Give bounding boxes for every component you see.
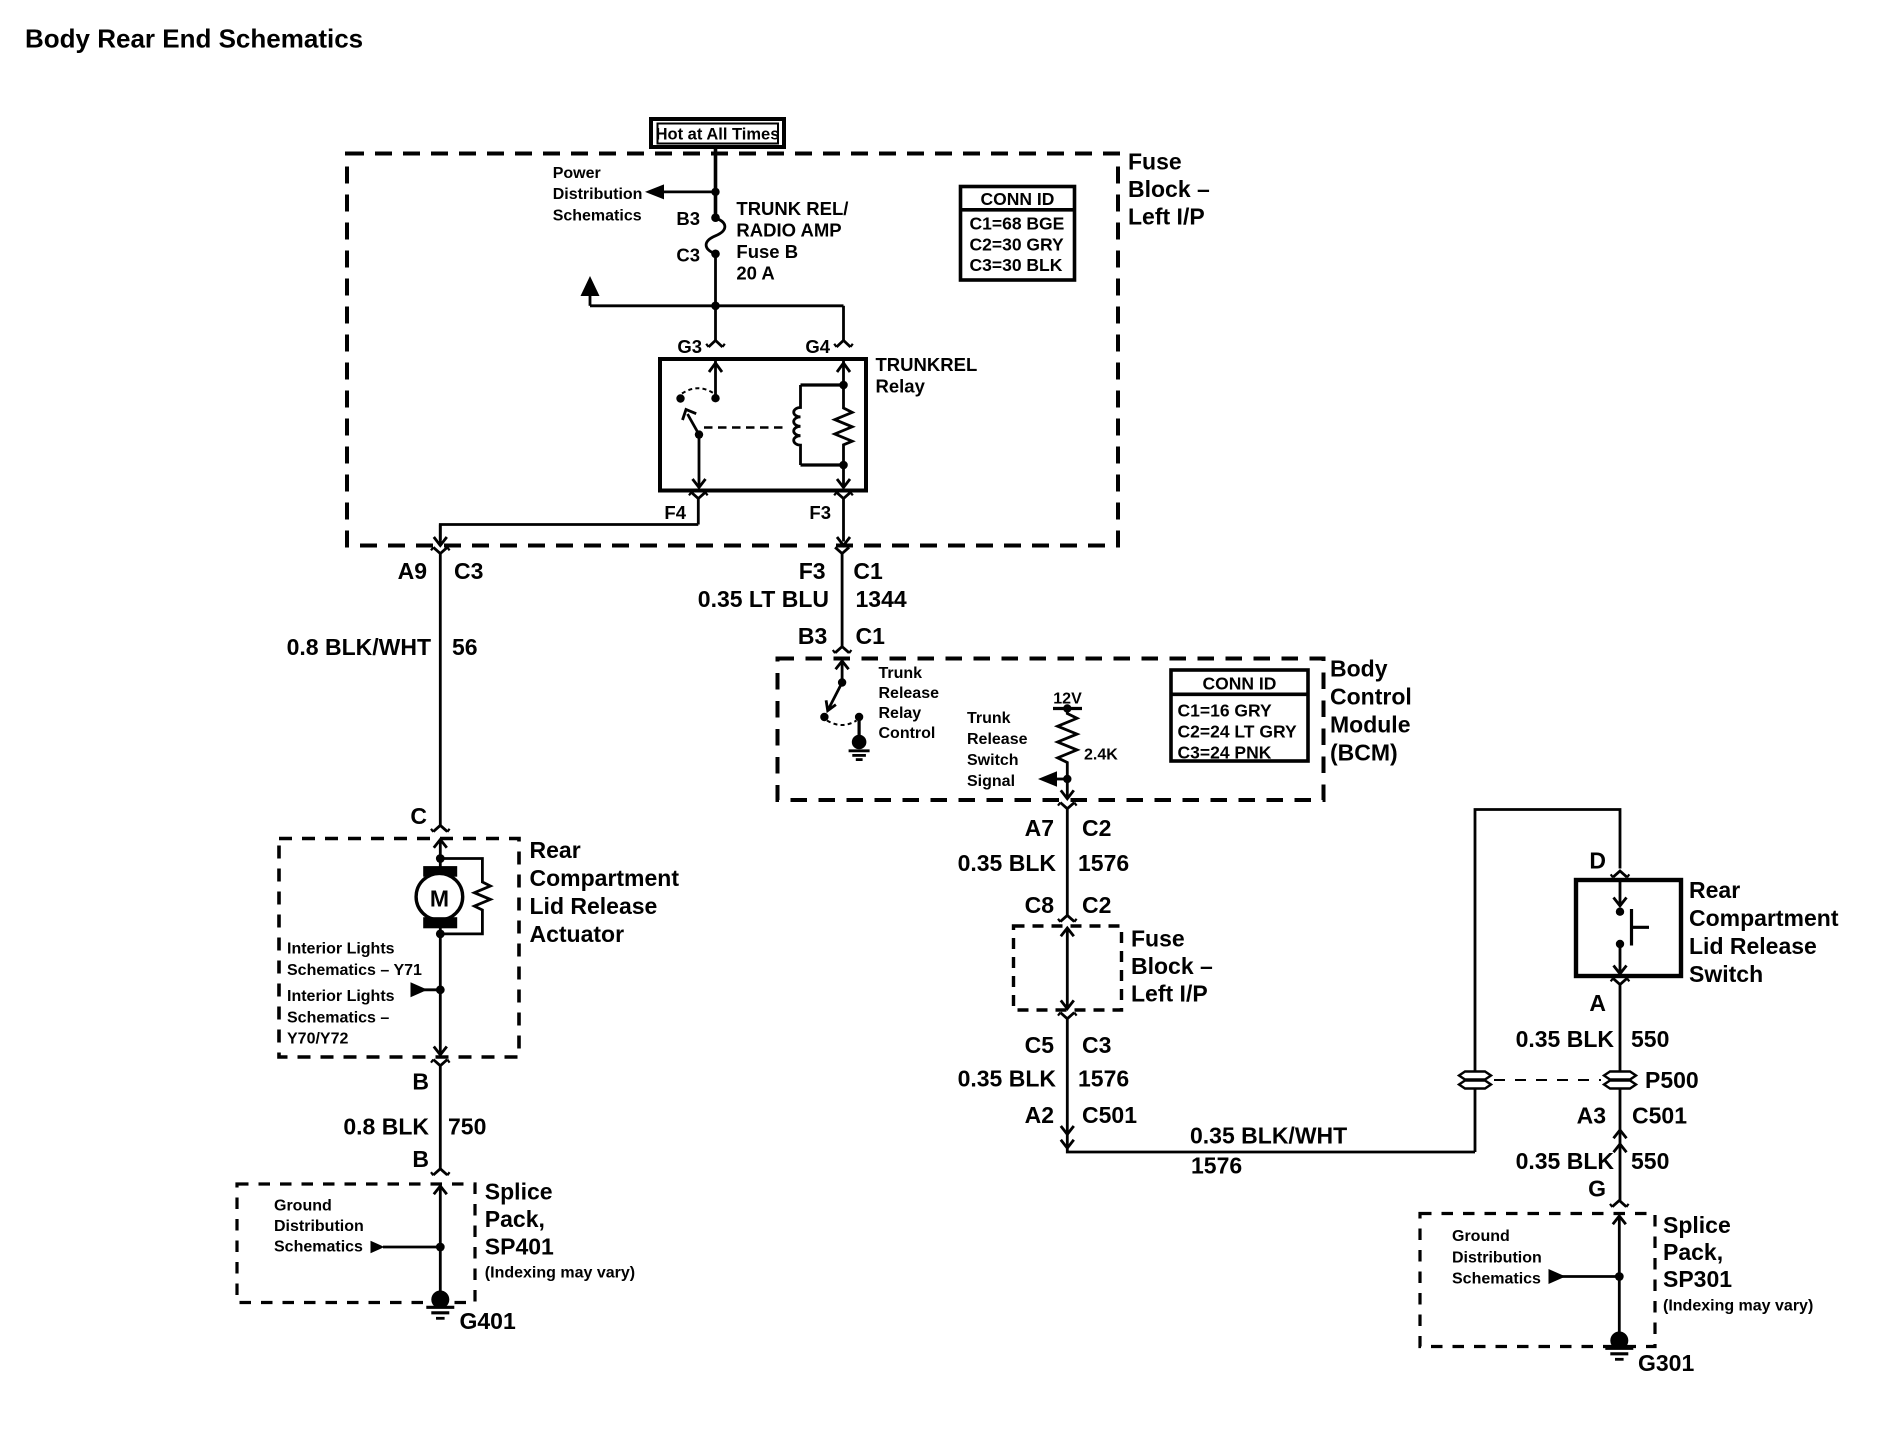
- svg-text:Distribution: Distribution: [1452, 1249, 1542, 1266]
- svg-text:Schematics –: Schematics –: [287, 1009, 389, 1026]
- svg-text:Distribution: Distribution: [553, 186, 643, 203]
- svg-text:Compartment: Compartment: [530, 865, 680, 891]
- arrow into actuator at C: [434, 840, 447, 859]
- svg-text:TRUNK REL/: TRUNK REL/: [736, 198, 848, 219]
- arrow from ground distribution schematics (SP301): [1562, 1275, 1619, 1278]
- svg-text:Rear: Rear: [1689, 877, 1740, 903]
- relay switch pivot contact: [676, 394, 684, 402]
- svg-text:A9: A9: [398, 558, 427, 584]
- svg-text:Release: Release: [967, 731, 1028, 748]
- arrow out of BCM at A7: [1061, 790, 1074, 798]
- svg-text:Trunk: Trunk: [879, 665, 923, 682]
- svg-text:C2=24 LT GRY: C2=24 LT GRY: [1178, 722, 1297, 742]
- svg-text:SP301: SP301: [1663, 1266, 1732, 1292]
- svg-text:G301: G301: [1638, 1350, 1694, 1376]
- connector chevron at BCM B3: [835, 647, 849, 653]
- svg-text:F3: F3: [809, 502, 831, 523]
- svg-text:Signal: Signal: [967, 773, 1015, 790]
- wire down to relay G3: [714, 306, 717, 341]
- svg-text:C5: C5: [1025, 1032, 1055, 1058]
- svg-text:0.35 BLK: 0.35 BLK: [1516, 1026, 1615, 1052]
- svg-text:750: 750: [448, 1114, 486, 1140]
- connector arm ticks: [431, 344, 1629, 1207]
- svg-text:Splice: Splice: [1663, 1212, 1731, 1238]
- dashed link between P500 halves: [1494, 1079, 1601, 1081]
- relay TRUNKREL box: [660, 359, 866, 491]
- relay coil control dashed link: [704, 426, 787, 428]
- svg-text:C8: C8: [1025, 892, 1055, 918]
- connector Y below small fuse block (C5/C3): [1060, 1013, 1475, 1153]
- Hot at All Times flag: [651, 119, 784, 147]
- svg-text:C3=30 BLK: C3=30 BLK: [970, 255, 1063, 275]
- svg-text:Left I/P: Left I/P: [1131, 981, 1208, 1007]
- svg-text:TRUNKREL: TRUNKREL: [876, 354, 978, 375]
- wire: horizontal bus to G3/G4: [590, 304, 844, 307]
- in-line connector chevrons at A2/C501: [1061, 1126, 1074, 1148]
- connector Y below fuse block (A9/C3): [433, 547, 447, 553]
- node: motor bottom junction: [436, 930, 445, 939]
- svg-text:Actuator: Actuator: [530, 921, 625, 947]
- svg-text:Body Rear End Schematics: Body Rear End Schematics: [25, 24, 363, 54]
- svg-text:A3: A3: [1577, 1103, 1606, 1129]
- svg-text:0.35 BLK: 0.35 BLK: [958, 850, 1057, 876]
- svg-text:D: D: [1589, 848, 1606, 874]
- relay switch alternate-position dashed arc: [682, 388, 714, 393]
- wire stub with up arrow (to other circuits): [589, 294, 592, 306]
- connector chevron at actuator C: [433, 825, 447, 831]
- svg-text:C3=24 PNK: C3=24 PNK: [1178, 742, 1272, 762]
- BCM relay driver switch (trunk release relay control): [838, 678, 846, 686]
- svg-text:C3: C3: [454, 558, 483, 584]
- connector Y below fuse block (F3/C1): [835, 547, 849, 553]
- svg-text:CONN ID: CONN ID: [1203, 674, 1277, 694]
- svg-text:C2: C2: [1082, 892, 1111, 918]
- svg-text:Lid Release: Lid Release: [530, 893, 658, 919]
- svg-text:Y70/Y72: Y70/Y72: [287, 1031, 348, 1048]
- Fuse Block - Left I/P small dashed box: [1014, 926, 1122, 1010]
- svg-text:Fuse B: Fuse B: [736, 241, 798, 262]
- svg-text:Block –: Block –: [1131, 953, 1213, 979]
- wire: F3/C1 to BCM B3/C1: [841, 554, 844, 647]
- in-line connector P500 (switch side): [1604, 1072, 1636, 1089]
- svg-text:Relay: Relay: [879, 705, 922, 722]
- svg-text:C1: C1: [856, 623, 886, 649]
- svg-text:Ground: Ground: [274, 1198, 332, 1215]
- svg-text:B3: B3: [676, 208, 700, 229]
- relay switch common pin wire (from G3): [714, 361, 717, 398]
- fuse TRUNK REL/RADIO AMP Fuse B 20A: [706, 213, 725, 258]
- node: switch signal junction: [1063, 775, 1071, 783]
- node: fuse output junction: [711, 302, 720, 311]
- svg-text:1344: 1344: [856, 586, 907, 612]
- svg-text:20 A: 20 A: [736, 263, 774, 284]
- connector chevron at SP401: [433, 1169, 447, 1175]
- svg-text:0.8 BLK: 0.8 BLK: [343, 1114, 429, 1140]
- svg-text:Module: Module: [1330, 712, 1411, 738]
- arrow out of actuator at B: [434, 1047, 447, 1055]
- connector chevron G4: [837, 340, 851, 347]
- svg-text:550: 550: [1631, 1026, 1669, 1052]
- svg-text:Body: Body: [1330, 656, 1388, 682]
- svg-text:0.35 BLK: 0.35 BLK: [958, 1066, 1057, 1092]
- svg-text:Relay: Relay: [876, 376, 926, 397]
- svg-text:(Indexing may vary): (Indexing may vary): [1663, 1298, 1813, 1315]
- svg-text:C2=30 GRY: C2=30 GRY: [970, 234, 1065, 254]
- node: interior lights tap: [436, 985, 445, 994]
- wire down to relay G4: [842, 306, 845, 341]
- svg-text:Splice: Splice: [485, 1179, 553, 1205]
- svg-text:C: C: [410, 803, 427, 829]
- svg-text:G4: G4: [805, 336, 830, 357]
- node: motor top junction: [436, 854, 445, 863]
- svg-text:Power: Power: [553, 165, 601, 182]
- svg-text:Rear: Rear: [530, 837, 581, 863]
- connector chevron G3: [709, 340, 723, 347]
- connector Y below F3: [837, 492, 851, 541]
- svg-text:Hot at All Times: Hot at All Times: [656, 126, 780, 144]
- svg-text:C3: C3: [1082, 1032, 1111, 1058]
- svg-text:Schematics – Y71: Schematics – Y71: [287, 962, 422, 979]
- Rear Compartment Lid Release Actuator dashed box: [279, 839, 519, 1058]
- svg-text:A7: A7: [1025, 815, 1054, 841]
- arrow to interior lights schematics: [424, 988, 440, 991]
- arrow into SP401: [434, 1186, 447, 1300]
- junction to power distribution: [711, 188, 719, 196]
- Ground Distribution dashed box (SP301): [1420, 1214, 1655, 1347]
- wire: motor to actuator pin B: [439, 934, 442, 1054]
- arrow into SP301: [1613, 1216, 1626, 1341]
- svg-text:0.35 BLK: 0.35 BLK: [1516, 1148, 1615, 1174]
- in-line connector chevrons at A3/C501: [1614, 1130, 1627, 1152]
- arrow at fuse block exit (A9): [434, 525, 447, 546]
- svg-text:Ground: Ground: [1452, 1228, 1510, 1245]
- svg-text:Schematics: Schematics: [274, 1239, 363, 1256]
- svg-text:Schematics: Schematics: [553, 207, 642, 224]
- svg-text:0.8 BLK/WHT: 0.8 BLK/WHT: [287, 634, 431, 660]
- svg-text:F4: F4: [664, 502, 686, 523]
- svg-text:Pack,: Pack,: [485, 1206, 545, 1232]
- svg-text:Left I/P: Left I/P: [1128, 204, 1205, 230]
- svg-text:(Indexing may vary): (Indexing may vary): [485, 1265, 635, 1282]
- svg-text:Switch: Switch: [1689, 961, 1763, 987]
- wire to power distribution arrow: [660, 190, 716, 193]
- wire: switch output to A: [1614, 944, 1627, 974]
- svg-text:B: B: [412, 1146, 429, 1172]
- svg-text:Interior Lights: Interior Lights: [287, 988, 395, 1005]
- svg-text:Switch: Switch: [967, 752, 1019, 769]
- arrow at fuse block exit (F3): [837, 537, 850, 546]
- motor M (actuator): [416, 859, 463, 935]
- wire: fuse output down: [714, 254, 717, 306]
- Fuse Block - Left I/P dashed box: [347, 154, 1118, 546]
- svg-text:B3: B3: [798, 623, 827, 649]
- node: ground distribution tap: [436, 1243, 445, 1252]
- svg-text:2.4K: 2.4K: [1084, 747, 1118, 764]
- svg-text:F3: F3: [799, 558, 826, 584]
- svg-text:C1: C1: [853, 558, 883, 584]
- svg-text:RADIO AMP: RADIO AMP: [736, 220, 841, 241]
- svg-text:Trunk: Trunk: [967, 710, 1011, 727]
- svg-text:G401: G401: [460, 1308, 516, 1334]
- svg-text:Fuse: Fuse: [1131, 926, 1185, 952]
- push button actuator symbol: [1630, 909, 1633, 946]
- ground G301: [1605, 1332, 1633, 1360]
- svg-text:Distribution: Distribution: [274, 1218, 364, 1235]
- svg-text:1576: 1576: [1191, 1153, 1242, 1179]
- resistor 2.4K pull-up: [1058, 709, 1077, 798]
- svg-text:G3: G3: [677, 336, 702, 357]
- svg-text:56: 56: [452, 634, 478, 660]
- Body Control Module dashed box: [778, 659, 1324, 801]
- wire: F4 run left: [440, 525, 698, 541]
- svg-text:1576: 1576: [1078, 1066, 1129, 1092]
- wire: harness loop up and over to switch D: [1475, 810, 1620, 1153]
- Rear Compartment Lid Release Switch box: [1576, 880, 1681, 976]
- wire: relay output to F4: [698, 435, 701, 487]
- svg-text:Pack,: Pack,: [1663, 1239, 1723, 1265]
- svg-text:Compartment: Compartment: [1689, 905, 1839, 931]
- svg-text:(BCM): (BCM): [1330, 740, 1398, 766]
- dashed alternate position arc: [827, 721, 857, 726]
- CONN ID table (fuse block): [961, 187, 1075, 281]
- connector chevron at SP301 G: [1612, 1201, 1626, 1207]
- svg-text:C3: C3: [676, 245, 700, 266]
- wire: hot feed down from flag: [714, 147, 718, 218]
- svg-text:0.35 LT BLU: 0.35 LT BLU: [698, 586, 829, 612]
- svg-text:550: 550: [1631, 1148, 1669, 1174]
- svg-text:C1=68 BGE: C1=68 BGE: [970, 214, 1065, 234]
- svg-text:P500: P500: [1645, 1067, 1699, 1093]
- connector Y below F4: [691, 492, 705, 524]
- relay switch movable arm with arrow: [688, 414, 700, 435]
- svg-text:C1=16 GRY: C1=16 GRY: [1178, 701, 1273, 721]
- svg-text:M: M: [430, 886, 449, 912]
- svg-text:A: A: [1589, 990, 1606, 1016]
- svg-text:C2: C2: [1082, 815, 1111, 841]
- svg-text:SP401: SP401: [485, 1234, 554, 1260]
- wire through small fuse block: [1061, 928, 1074, 1009]
- svg-text:C501: C501: [1082, 1102, 1137, 1128]
- Ground Distribution dashed box (SP401): [237, 1184, 475, 1303]
- wire: coil top pin (G4): [842, 361, 845, 385]
- wire: coil bottom pin (F3): [842, 465, 845, 487]
- svg-text:Block –: Block –: [1128, 176, 1210, 202]
- svg-text:Schematics: Schematics: [1452, 1271, 1541, 1288]
- connector chevron at fuse block C8: [1060, 915, 1074, 921]
- svg-text:Lid Release: Lid Release: [1689, 933, 1817, 959]
- arrow to power distribution schematics: [645, 184, 664, 199]
- svg-text:G: G: [1588, 1176, 1606, 1202]
- connector chevron at switch D: [1613, 871, 1627, 877]
- in-line connector P500 (body side): [1459, 1072, 1491, 1089]
- connector Y below switch (A): [1613, 978, 1627, 1200]
- connector Y below BCM (A7/C2): [1060, 803, 1074, 916]
- svg-text:Release: Release: [879, 685, 940, 702]
- svg-text:Control: Control: [1330, 684, 1412, 710]
- relay switch output contact: [695, 430, 703, 438]
- node: ground distribution tap (SP301): [1615, 1272, 1624, 1281]
- arrow into BCM at B3: [836, 661, 849, 683]
- svg-text:Interior Lights: Interior Lights: [287, 941, 395, 958]
- arrow from ground distribution schematics: [383, 1246, 440, 1249]
- fixed contact to ground: [855, 713, 863, 721]
- actuator internal resistor (parallel with motor): [440, 859, 490, 934]
- CONN ID table (BCM): [1171, 670, 1308, 762]
- svg-text:1576: 1576: [1078, 850, 1129, 876]
- svg-text:B: B: [412, 1069, 429, 1095]
- relay coil (inductor + resistor in parallel): [794, 381, 853, 470]
- svg-text:CONN ID: CONN ID: [981, 189, 1055, 209]
- ground G401: [426, 1291, 454, 1319]
- wire: A9 to actuator pin C: [439, 554, 442, 826]
- svg-text:Control: Control: [879, 725, 936, 742]
- svg-text:0.35 BLK/WHT: 0.35 BLK/WHT: [1190, 1123, 1347, 1149]
- connector Y below actuator (B): [433, 1060, 447, 1169]
- svg-text:A2: A2: [1025, 1102, 1054, 1128]
- svg-text:C501: C501: [1632, 1103, 1687, 1129]
- ground (BCM internal): [849, 735, 870, 760]
- svg-text:Fuse: Fuse: [1128, 149, 1182, 175]
- arrow to trunk release switch signal: [1055, 778, 1067, 781]
- switch contacts: [1614, 882, 1627, 906]
